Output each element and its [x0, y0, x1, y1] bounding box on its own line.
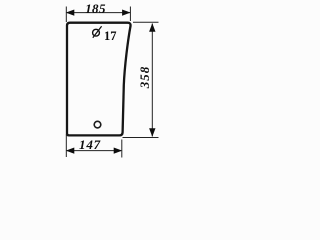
arrowhead 358 top	[149, 23, 155, 32]
extension line bottom (for 358 dim)	[123, 137, 159, 139]
arrowhead 147 left	[66, 148, 75, 154]
arrowhead 185 left	[66, 10, 75, 16]
arrowhead 358 bottom	[149, 128, 155, 137]
dimension line 358	[151, 24, 153, 137]
extension line below panel left	[65, 134, 67, 157]
dimension line 147	[67, 150, 121, 152]
arrowhead 147 right	[114, 148, 123, 154]
arrowhead 185 right	[122, 10, 131, 16]
svg-text:17: 17	[104, 29, 117, 43]
svg-text:358: 358	[137, 66, 152, 90]
extension line right of 185 dim	[129, 7, 131, 22]
svg-text:185: 185	[85, 1, 106, 16]
mounting hole	[94, 121, 101, 128]
extension line below panel right (for 147 dim)	[121, 140, 123, 158]
dimension line 185	[67, 12, 130, 14]
extension line top (for 358 dim)	[133, 21, 159, 23]
diameter symbol of Ø17 label	[93, 29, 100, 36]
extension line left (above panel)	[65, 7, 67, 23]
glass panel outline	[67, 23, 131, 136]
svg-text:147: 147	[79, 137, 101, 152]
